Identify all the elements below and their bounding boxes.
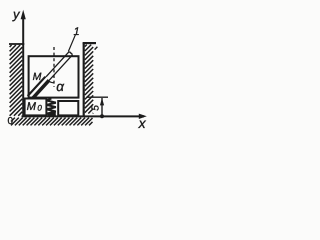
svg-text:0: 0 xyxy=(37,103,42,112)
rod 1 tip cap xyxy=(69,52,72,55)
spring xyxy=(47,98,56,115)
svg-text:0: 0 xyxy=(8,116,14,127)
s dimension line xyxy=(101,98,103,116)
right wall hatching xyxy=(85,45,93,114)
y-axis line xyxy=(22,17,24,116)
right support block xyxy=(58,101,78,115)
leader line for label 1 xyxy=(68,35,75,52)
block M0 xyxy=(25,99,47,116)
x-axis arrowhead xyxy=(139,114,147,119)
angle alpha arc xyxy=(49,81,54,83)
s dimension arrowhead xyxy=(100,98,104,106)
rod 1 outer bar xyxy=(30,53,71,98)
x-axis / floor line xyxy=(22,115,145,117)
svg-text:1: 1 xyxy=(74,26,80,38)
left wall top cap xyxy=(9,43,24,45)
spring bottom coil dense wedge xyxy=(48,111,56,117)
right wall cap outer hatch tick xyxy=(95,47,98,50)
svg-text:x: x xyxy=(138,115,147,131)
y-axis arrowhead xyxy=(21,10,26,19)
sleeve M white stripe (rod core through sleeve) xyxy=(30,78,48,97)
rod 1 white core xyxy=(30,53,71,98)
svg-text:M: M xyxy=(27,101,37,113)
sleeve M black body xyxy=(30,79,48,98)
floor hatching xyxy=(11,118,93,126)
svg-text:α: α xyxy=(56,79,65,94)
left wall hatching xyxy=(10,45,23,116)
svg-text:5: 5 xyxy=(91,105,102,111)
right wall top cap xyxy=(83,42,96,44)
container box outline xyxy=(29,56,79,97)
right wall inner edge xyxy=(83,43,85,116)
svg-text:M: M xyxy=(33,71,42,83)
dashed vertical line xyxy=(53,47,55,87)
s dimension base dot xyxy=(100,114,104,118)
s dimension reference tick xyxy=(86,96,108,98)
